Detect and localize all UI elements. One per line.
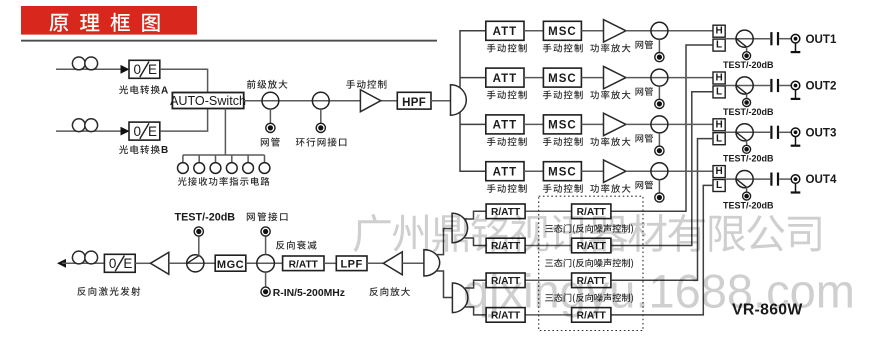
- svg-text:ATT: ATT: [493, 26, 518, 38]
- label 网管 branch4: [636, 181, 654, 190]
- label 反向放大: [370, 287, 410, 296]
- port OUT2 connector: [791, 81, 800, 90]
- label 手动控制 ATT1: [487, 44, 527, 53]
- wire bus stub branch3: [460, 123, 486, 125]
- amplifier power branch2: [604, 66, 626, 88]
- title banner: [21, 6, 197, 35]
- wire MSC3 to amp3: [581, 123, 603, 125]
- coupler NMS node branch4: [651, 163, 668, 180]
- attenuator R/ATT row4 right tri-state: [572, 308, 611, 323]
- wire amp to TEST coupler: [169, 262, 215, 264]
- attenuator ATT branch4: [486, 162, 524, 181]
- wire 0/E to reverse amp: [135, 262, 150, 264]
- amplifier main manual: [360, 90, 380, 112]
- svg-text:HPF: HPF: [402, 97, 426, 109]
- svg-text:OUT1: OUT1: [806, 33, 837, 46]
- amplifier power branch4: [604, 160, 626, 182]
- label 前级放大: [247, 80, 287, 89]
- label 手动控制 MSC2: [543, 90, 583, 99]
- wire amp2 to combiner: [402, 262, 424, 264]
- wire row2 left to right R/ATT: [525, 245, 572, 247]
- wire stage2a to row2: [465, 238, 487, 246]
- wire capacitor4 to port: [779, 178, 791, 180]
- converter 0/E reverse: [104, 254, 135, 272]
- svg-text:ATT: ATT: [493, 167, 518, 179]
- svg-text:LPF: LPF: [340, 259, 362, 271]
- attenuator R/ATT row3 left: [486, 273, 525, 288]
- testpoint ring-net port: [316, 123, 325, 132]
- wire capacitor1 to port: [779, 38, 791, 40]
- wire amp4 to diplexer4: [626, 170, 713, 172]
- label 三态门 1: [545, 224, 633, 234]
- wire R/ATT to LPF: [324, 262, 336, 264]
- wire ATT2 to MSC2: [524, 77, 543, 79]
- label 功率放大 branch4: [590, 184, 630, 193]
- amplifier power branch3: [604, 113, 626, 135]
- wire capacitor2 to port: [779, 85, 791, 87]
- testpoint NMS port reverse: [261, 227, 270, 236]
- svg-text:TEST/-20dB: TEST/-20dB: [723, 107, 774, 117]
- label 网管 preamp: [261, 138, 280, 147]
- attenuator R/ATT row2 right tri-state: [572, 238, 611, 253]
- label 反向激光发射: [77, 287, 140, 296]
- testpoint R-IN port: [261, 287, 270, 296]
- converter 0/E B: [129, 122, 160, 140]
- wire diplexer1 to coupler: [725, 38, 770, 40]
- wire forward distribution bus: [460, 31, 486, 171]
- testpoint NMS branch4: [655, 193, 664, 202]
- fiber coil B: [72, 119, 85, 132]
- svg-text:TEST/-20dB: TEST/-20dB: [723, 154, 774, 164]
- svg-text:0: 0: [133, 62, 141, 77]
- label 手动控制 ATT2: [487, 90, 527, 99]
- svg-text:TEST/-20dB: TEST/-20dB: [723, 200, 774, 210]
- wire row1 left to right R/ATT: [525, 210, 572, 212]
- amplifier reverse main: [383, 252, 402, 275]
- stem NMS branch3: [658, 133, 660, 146]
- fiber coil A: [72, 57, 85, 70]
- wire AUTO-Switch to HPF: [244, 100, 398, 102]
- stem TEST branch1: [746, 47, 748, 52]
- svg-text:H: H: [715, 166, 722, 177]
- coupler NMS node branch1: [651, 22, 668, 39]
- label 三态门 2: [545, 259, 633, 269]
- wire LPF to reverse amp2: [367, 262, 383, 264]
- coupler NMS node branch2: [651, 69, 668, 86]
- stem preamp NMS: [269, 109, 271, 123]
- svg-text:H: H: [715, 119, 722, 130]
- dashed enclosure tri-state gates: [539, 196, 643, 330]
- attenuator ATT branch2: [486, 68, 524, 87]
- diplexer H box branch2: [713, 72, 725, 84]
- svg-text:E: E: [148, 124, 157, 139]
- label 光接收功率指示电路: [178, 177, 270, 186]
- fiber coil reverse: [72, 251, 85, 264]
- wire stage1 to stage2a: [436, 229, 452, 255]
- equalizer MSC branch4: [543, 162, 581, 181]
- equalizer MSC branch1: [543, 21, 581, 40]
- label 手动控制 MSC4: [543, 184, 583, 193]
- coupler node preamp: [262, 92, 279, 109]
- svg-text:OUT3: OUT3: [806, 126, 837, 139]
- title underline: [21, 40, 437, 42]
- label 手动控制 ATT3: [487, 137, 527, 146]
- port OUT3 connector: [791, 128, 800, 137]
- wire diplexer3 to coupler: [725, 131, 770, 133]
- svg-text:E: E: [148, 62, 157, 77]
- testpoint NMS branch2: [655, 99, 664, 108]
- svg-text:E: E: [123, 256, 132, 271]
- diplexer L box branch2: [713, 86, 725, 98]
- svg-text:ATT: ATT: [493, 120, 518, 132]
- wire fiber input A: [56, 68, 122, 70]
- stem TEST branch4: [746, 187, 748, 192]
- wire ATT1 to MSC1: [524, 30, 543, 32]
- wire MSC4 to amp4: [581, 170, 603, 172]
- coupler TEST branch4: [736, 171, 753, 188]
- svg-text:OUT4: OUT4: [806, 173, 837, 186]
- attenuator R/ATT row1 right tri-state: [572, 204, 611, 219]
- capacitor C1: [770, 32, 772, 45]
- stem NMS branch1: [658, 39, 660, 52]
- attenuator ATT branch1: [486, 21, 524, 40]
- wire diplexer2 to coupler: [725, 85, 770, 87]
- wire stage2a to row1: [465, 211, 487, 219]
- splitter 4-way forward: [451, 85, 467, 115]
- equalizer MSC branch3: [543, 115, 581, 134]
- svg-text:MSC: MSC: [548, 73, 577, 85]
- wire diplexer4 to coupler: [725, 178, 770, 180]
- diplexer L box branch1: [713, 39, 725, 51]
- wire MGC to junction: [246, 262, 283, 264]
- svg-text:H: H: [715, 26, 722, 37]
- testpoint NMS branch1: [655, 53, 664, 62]
- wire fiber input B: [56, 130, 122, 132]
- label 手动控制 main amp: [346, 80, 386, 89]
- switch U1 AUTO-Switch: [172, 93, 243, 109]
- attenuator R/ATT row3 right tri-state: [572, 273, 611, 288]
- attenuator ATT branch3: [486, 115, 524, 134]
- svg-text:L: L: [716, 87, 722, 98]
- wire ATT4 to MSC4: [524, 170, 543, 172]
- testpoint TEST branch4: [743, 192, 751, 200]
- wire MSC2 to amp2: [581, 77, 603, 79]
- amplifier power branch1: [604, 20, 626, 42]
- label 功率放大 branch1: [590, 44, 630, 53]
- control MGC: [215, 255, 246, 271]
- svg-text:MSC: MSC: [548, 167, 577, 179]
- stem R-IN port: [265, 272, 267, 287]
- label 三态门 3: [545, 293, 633, 303]
- svg-text:0: 0: [109, 256, 117, 271]
- label 手动控制 MSC3: [543, 137, 583, 146]
- port OUT4 connector: [791, 175, 800, 184]
- label 网管 branch2: [636, 87, 654, 96]
- indicator bus bar: [183, 154, 265, 156]
- svg-text:TEST/-20dB: TEST/-20dB: [175, 212, 236, 224]
- coupler TEST reverse: [187, 255, 204, 272]
- attenuator R/ATT row1 left: [486, 204, 525, 219]
- svg-text:AUTO-Switch: AUTO-Switch: [170, 94, 246, 108]
- indicator LED circles: [182, 155, 184, 163]
- attenuator R/ATT row2 left: [486, 238, 525, 253]
- stem TEST reverse: [198, 236, 200, 256]
- wire amp3 to diplexer3: [626, 123, 713, 125]
- wire L2 to return row2: [611, 92, 713, 246]
- stem NMS port reverse: [265, 236, 267, 255]
- stem NMS branch2: [658, 86, 660, 99]
- testpoint preamp NMS: [266, 123, 275, 132]
- wire HPF to splitter: [431, 100, 451, 102]
- wire L4 to return row4: [611, 185, 713, 315]
- wire MSC1 to amp1: [581, 30, 603, 32]
- port OUT1 connector: [791, 34, 800, 43]
- svg-text:ATT: ATT: [493, 73, 518, 85]
- wire amp2 to diplexer2: [626, 77, 713, 79]
- svg-text:OUT2: OUT2: [806, 80, 837, 93]
- coupler node ring-net: [312, 92, 329, 109]
- stem TEST branch2: [746, 94, 748, 99]
- label 光电转换A: [119, 85, 160, 94]
- diplexer H box branch1: [713, 25, 725, 37]
- svg-text:qjxingyu.1688.com: qjxingyu.1688.com: [463, 265, 855, 318]
- capacitor C2: [770, 79, 772, 92]
- combiner 2-way stage2a: [452, 213, 468, 243]
- wire L3 to return row3: [611, 139, 713, 281]
- svg-text:R-IN/5-200MHz: R-IN/5-200MHz: [273, 288, 345, 299]
- label 环行网接口: [296, 138, 347, 147]
- wire 0/E A to AUTO-Switch: [160, 69, 208, 92]
- wire amp1 to diplexer1: [626, 30, 713, 32]
- wire stage1 to stage2b: [436, 271, 452, 298]
- attenuator R/ATT row4 left: [486, 308, 525, 323]
- testpoint TEST reverse: [194, 227, 203, 236]
- diplexer H box branch4: [713, 166, 725, 178]
- coupler TEST branch3: [736, 124, 753, 141]
- combiner 2-way stage1: [424, 250, 440, 276]
- wire stage2b to row4: [465, 307, 486, 315]
- capacitor C3: [770, 126, 772, 139]
- arrow reverse laser out: [57, 259, 66, 268]
- svg-text:TEST/-20dB: TEST/-20dB: [723, 60, 774, 70]
- svg-text:0: 0: [133, 124, 141, 139]
- svg-text:B: B: [161, 145, 168, 156]
- svg-text:R/ATT: R/ATT: [289, 260, 319, 271]
- wire capacitor3 to port: [779, 131, 791, 133]
- arrow into 0/E A: [121, 65, 130, 74]
- svg-text:MGC: MGC: [217, 259, 244, 271]
- wire row4 left to right R/ATT: [525, 314, 572, 316]
- coupler TEST branch1: [736, 30, 753, 47]
- label 网管 branch3: [636, 134, 654, 143]
- svg-text:H: H: [715, 73, 722, 84]
- wire row3 left to right R/ATT: [525, 279, 572, 281]
- svg-text:MSC: MSC: [548, 26, 577, 38]
- testpoint NMS branch3: [655, 146, 664, 155]
- label 手动控制 ATT4: [487, 184, 527, 193]
- svg-text:L: L: [716, 133, 722, 144]
- stem NMS branch4: [658, 180, 660, 193]
- stem TEST branch3: [746, 141, 748, 146]
- svg-text:L: L: [716, 180, 722, 191]
- wire 0/E B to AUTO-Switch: [160, 109, 207, 132]
- coupler NMS node branch3: [651, 116, 668, 133]
- testpoint TEST branch3: [743, 145, 751, 153]
- combiner 2-way stage2b: [452, 283, 468, 313]
- attenuator R/ATT reverse: [283, 256, 324, 271]
- label 功率放大 branch3: [590, 137, 630, 146]
- equalizer MSC branch2: [543, 68, 581, 87]
- filter LPF: [336, 256, 367, 271]
- diplexer L box branch4: [713, 180, 725, 192]
- svg-text:MSC: MSC: [548, 120, 577, 132]
- label 反向衰减: [276, 241, 317, 250]
- coupler TEST branch2: [736, 77, 753, 94]
- converter 0/E A: [129, 60, 160, 78]
- wire stage2b to row3: [465, 280, 486, 288]
- label 网管接口 reverse: [247, 212, 288, 221]
- wire bus stub branch2: [460, 77, 486, 79]
- svg-text:L: L: [716, 40, 722, 51]
- svg-text:A: A: [161, 85, 168, 96]
- diplexer L box branch3: [713, 133, 725, 145]
- filter HPF: [397, 92, 431, 109]
- amplifier reverse laser drive: [150, 252, 168, 274]
- wire reverse out: [62, 262, 104, 264]
- junction node R-IN: [257, 254, 275, 272]
- wire AUTO-Switch to indicator bar: [224, 109, 226, 156]
- wire ATT3 to MSC3: [524, 123, 543, 125]
- label 网管 branch1: [636, 40, 654, 49]
- wire L1 to return row1: [611, 45, 713, 211]
- capacitor C4: [770, 173, 772, 186]
- label 光电转换B: [119, 145, 160, 154]
- arrow into 0/E B: [121, 127, 130, 136]
- watermark line1: [354, 214, 821, 252]
- label 功率放大 branch2: [590, 90, 630, 99]
- testpoint TEST branch2: [743, 99, 751, 107]
- diplexer H box branch3: [713, 119, 725, 131]
- label 手动控制 MSC1: [543, 44, 583, 53]
- testpoint TEST branch1: [743, 52, 751, 60]
- stem ring-net port: [320, 109, 322, 123]
